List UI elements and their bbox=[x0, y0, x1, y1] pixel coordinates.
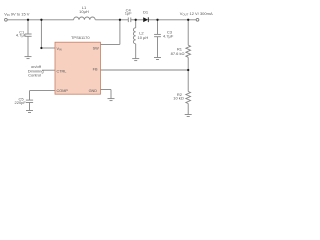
svg-text:D1: D1 bbox=[143, 10, 149, 15]
svg-text:GND: GND bbox=[89, 89, 98, 93]
svg-text:VIN 9V to 15 V: VIN 9V to 15 V bbox=[4, 11, 30, 17]
svg-text:FB: FB bbox=[93, 68, 98, 72]
svg-text:CTRL: CTRL bbox=[57, 70, 67, 74]
svg-text:4.7µF: 4.7µF bbox=[16, 33, 27, 38]
svg-text:220pF: 220pF bbox=[15, 100, 27, 105]
svg-text:TPS61170: TPS61170 bbox=[71, 35, 90, 40]
svg-text:1µF: 1µF bbox=[125, 11, 133, 16]
svg-text:10 µH: 10 µH bbox=[138, 35, 149, 40]
svg-text:Control: Control bbox=[28, 72, 41, 77]
svg-text:VIN: VIN bbox=[57, 47, 62, 52]
svg-text:COMP: COMP bbox=[57, 89, 69, 93]
svg-text:4.7µF: 4.7µF bbox=[163, 34, 174, 39]
svg-text:10 kΩ: 10 kΩ bbox=[173, 96, 184, 101]
svg-text:10µH: 10µH bbox=[79, 9, 89, 14]
svg-text:VOUT 12 V/ 300mA: VOUT 12 V/ 300mA bbox=[180, 11, 213, 17]
svg-text:SW: SW bbox=[93, 47, 100, 51]
svg-text:87.6 kΩ: 87.6 kΩ bbox=[171, 51, 185, 56]
